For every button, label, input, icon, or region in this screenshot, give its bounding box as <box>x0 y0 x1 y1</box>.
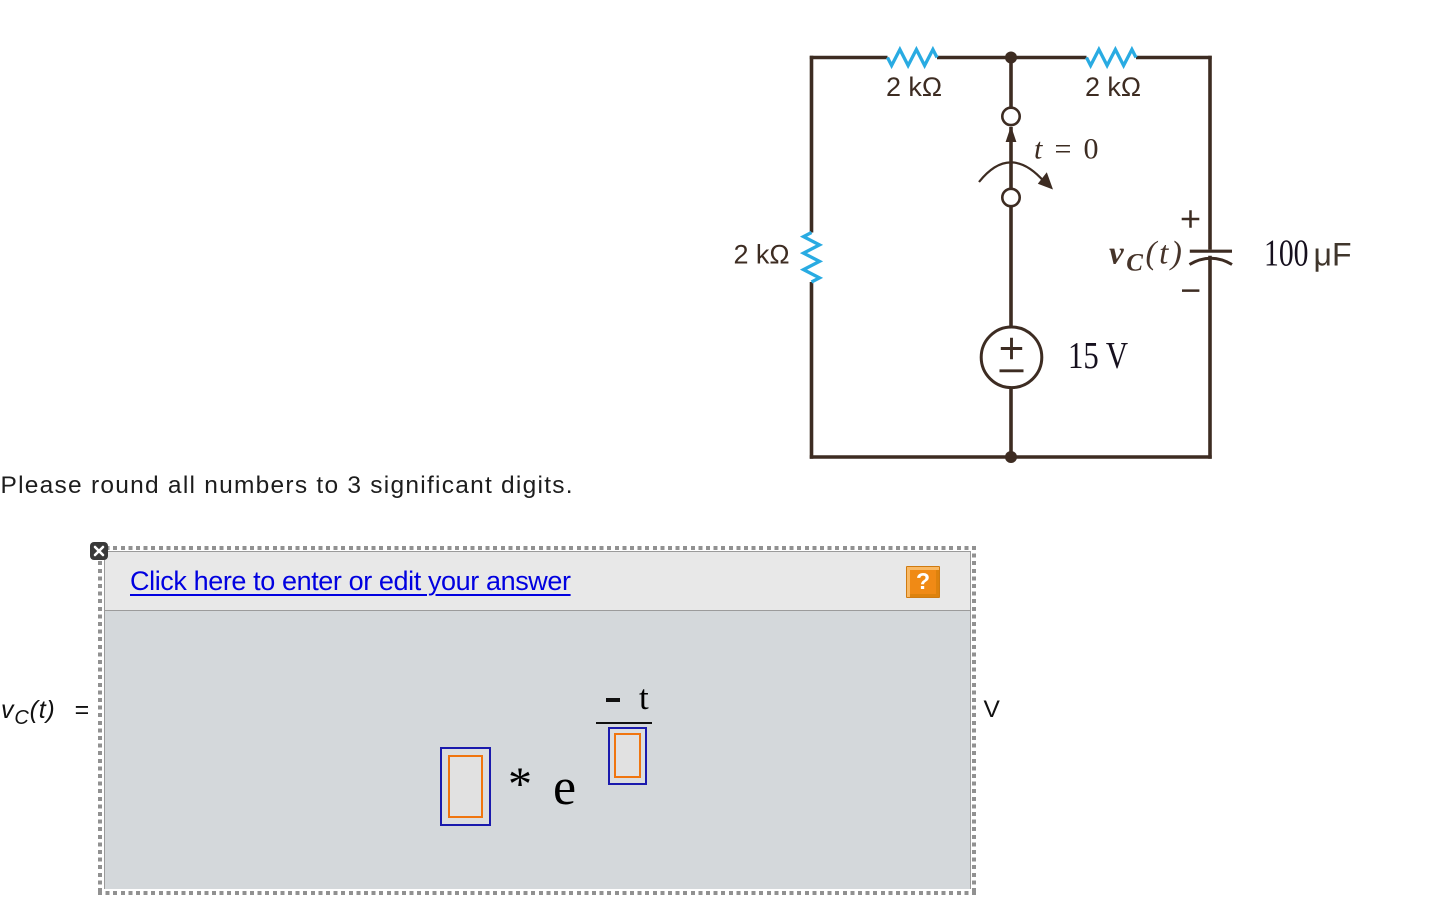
svg-text:2 kΩ: 2 kΩ <box>1085 72 1141 102</box>
circuit schematic SVG <box>0 0 1434 540</box>
switch SW1 motion arc <box>979 162 1044 182</box>
equation exponent minus bar <box>606 698 620 702</box>
resistor R1 (top left, 2 kOhm) <box>888 50 938 66</box>
svg-text:vC(t): vC(t) <box>1109 236 1184 277</box>
equation fraction bar <box>596 722 653 724</box>
wire top-left segment <box>810 56 888 60</box>
svg-text:t = 0: t = 0 <box>1034 133 1099 166</box>
equation label vC(t) = <box>1 696 90 730</box>
wire left upper segment <box>810 56 814 233</box>
answer box inner panel <box>104 551 971 890</box>
help question-mark button <box>906 566 940 598</box>
capacitor C1 top plate <box>1190 250 1232 253</box>
capacitor C1 curved plate <box>1190 258 1233 264</box>
resistor R3 (left branch, 2 kOhm) <box>804 233 820 283</box>
equation answer blank 2 outer blue box <box>608 727 648 785</box>
wire top-middle segment <box>937 56 1087 60</box>
node junction dot top <box>1005 52 1017 64</box>
wire bottom segment <box>810 455 1212 459</box>
wire middle switch segment <box>1009 127 1013 189</box>
switch SW1 bottom contact <box>1002 189 1019 206</box>
answer link <box>130 566 571 597</box>
svg-text:2 kΩ: 2 kΩ <box>886 72 942 102</box>
wire right upper segment <box>1208 56 1212 250</box>
capacitor C1 polarity minus <box>1182 289 1199 292</box>
equation exponent t <box>639 678 649 718</box>
answer box close button <box>90 542 108 560</box>
equation answer blank 2 inner orange box <box>614 733 641 779</box>
voltage source V1 circle <box>981 327 1042 388</box>
wire left lower segment <box>810 282 814 459</box>
node junction dot bottom <box>1005 451 1017 463</box>
answer box outer dotted frame <box>98 546 976 895</box>
wire middle below source <box>1009 388 1013 457</box>
switch SW1 top contact <box>1002 108 1019 125</box>
instruction text <box>1 472 574 500</box>
wire right lower segment <box>1208 256 1212 459</box>
svg-text:15 V: 15 V <box>1068 335 1128 377</box>
equation answer blank 1 inner orange box <box>448 755 483 818</box>
capacitor C1 polarity plus <box>1182 210 1200 228</box>
voltage source V1 minus sign <box>1000 369 1024 372</box>
wire middle top segment <box>1009 58 1013 108</box>
voltage source V1 plus sign <box>1001 338 1022 360</box>
svg-text:μF: μF <box>1314 237 1352 273</box>
equation e symbol <box>553 758 576 817</box>
svg-text:100: 100 <box>1264 233 1309 275</box>
switch SW1 blade arrowhead (up) <box>1006 126 1017 142</box>
equation multiply asterisk <box>508 757 532 812</box>
wire top-right segment <box>1136 56 1212 60</box>
equation answer blank 1 outer blue box <box>440 747 491 826</box>
resistor R2 (top right, 2 kOhm) <box>1087 50 1137 66</box>
wire middle below switch <box>1009 206 1013 327</box>
svg-text:2 kΩ: 2 kΩ <box>734 240 790 270</box>
answer box header <box>104 551 971 612</box>
unit V after answer box <box>984 696 1000 724</box>
switch SW1 motion arc arrowhead <box>1038 172 1053 189</box>
